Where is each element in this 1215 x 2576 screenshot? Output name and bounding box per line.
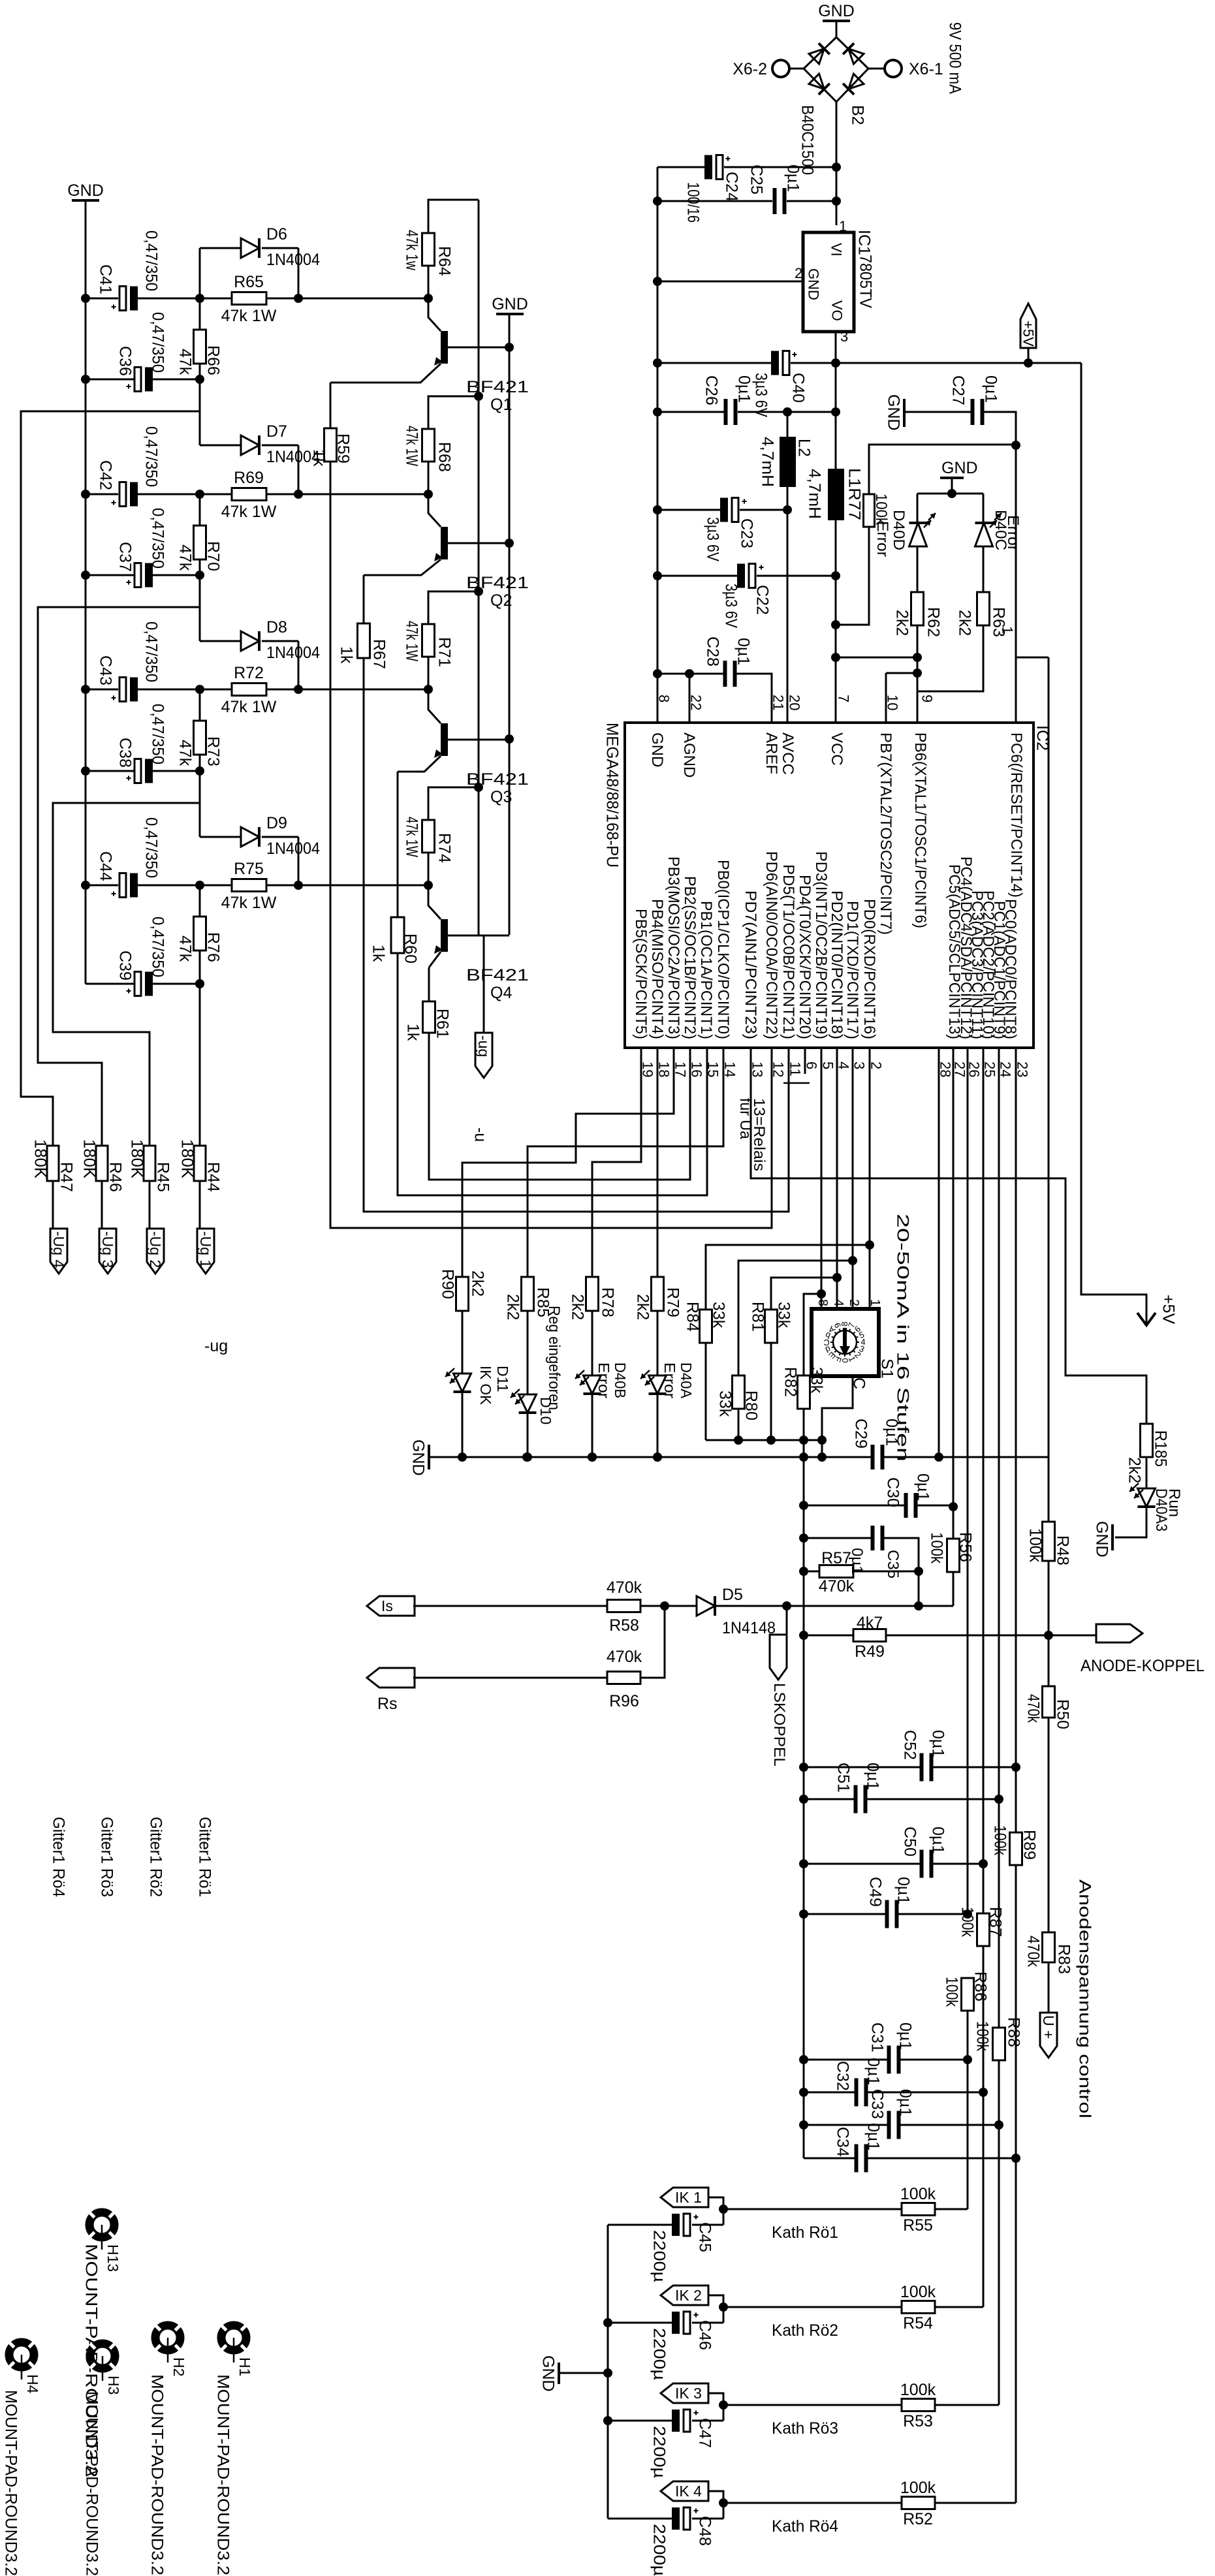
wire R64 top to rail bbox=[428, 200, 479, 233]
capacitor C41 0,47/350 bbox=[86, 298, 118, 300]
capacitor C40 3u3 6V bbox=[657, 362, 771, 364]
svg-text:2k2: 2k2 bbox=[504, 1294, 522, 1320]
svg-text:4,7mH: 4,7mH bbox=[759, 437, 777, 487]
svg-text:47k: 47k bbox=[176, 349, 195, 375]
wire reset jog to right rail bbox=[1016, 657, 1049, 659]
svg-text:VCC: VCC bbox=[828, 732, 845, 766]
resistor R76 47k bbox=[199, 885, 201, 917]
svg-text:H13: H13 bbox=[104, 2244, 121, 2272]
svg-text:X6-1: X6-1 bbox=[909, 60, 943, 78]
flag Rs bbox=[367, 1668, 415, 1688]
svg-text:100k: 100k bbox=[958, 1907, 977, 1937]
svg-text:C42: C42 bbox=[97, 460, 115, 490]
svg-text:C31: C31 bbox=[868, 2022, 887, 2052]
svg-text:BF421: BF421 bbox=[466, 378, 529, 396]
svg-text:D9: D9 bbox=[266, 814, 287, 832]
resistor R53 100k bbox=[723, 2404, 902, 2406]
svg-text:PC6(/RESET/PCINT14): PC6(/RESET/PCINT14) bbox=[1007, 732, 1025, 898]
capacitor C35 0u1 bbox=[804, 1537, 872, 1539]
mount pad H4 bbox=[8, 2341, 35, 2380]
svg-text:0µ1: 0µ1 bbox=[883, 1419, 901, 1446]
wire C27 to reset rail bbox=[984, 412, 1016, 445]
wire GND rail bbox=[462, 1456, 871, 1458]
svg-text:0,47/350: 0,47/350 bbox=[142, 621, 161, 682]
wire bridge output bbox=[836, 102, 838, 225]
svg-text:47k 1W: 47k 1W bbox=[403, 817, 421, 857]
resistor R74 47k 1W vertical bbox=[422, 820, 435, 853]
svg-text:-Ug 4: -Ug 4 bbox=[50, 1231, 67, 1268]
mount pad H2 bbox=[154, 2324, 181, 2363]
resistor R81 33k bbox=[771, 1278, 837, 1310]
flag LSKOPPEL bbox=[786, 1606, 788, 1635]
resistor R67 1k bbox=[358, 623, 370, 658]
svg-text:C22: C22 bbox=[753, 585, 772, 615]
svg-text:PC0(ADC0/PCINT8): PC0(ADC0/PCINT8) bbox=[1002, 899, 1019, 1039]
resistor R70 47k bbox=[199, 494, 201, 526]
capacitor C31 0u1 bbox=[804, 2059, 889, 2061]
resistor R58 470k bbox=[413, 1605, 607, 1607]
wire resistor top to rail bbox=[428, 396, 479, 429]
svg-text:Reg eingefroren: Reg eingefroren bbox=[545, 1306, 563, 1410]
svg-text:2k2: 2k2 bbox=[469, 1270, 487, 1296]
svg-text:C39: C39 bbox=[116, 950, 134, 981]
svg-text:Gitter1 Rö4: Gitter1 Rö4 bbox=[50, 1817, 68, 1897]
svg-text:20: 20 bbox=[787, 695, 803, 710]
svg-text:R82: R82 bbox=[781, 1367, 800, 1397]
ic IC1 7805TV bbox=[803, 232, 854, 332]
svg-text:+5V: +5V bbox=[1160, 1295, 1178, 1325]
svg-text:GND: GND bbox=[818, 2, 855, 20]
svg-text:100k: 100k bbox=[991, 1825, 1009, 1855]
svg-text:0µ1: 0µ1 bbox=[735, 375, 753, 403]
svg-text:Error: Error bbox=[661, 1362, 678, 1398]
svg-text:R54: R54 bbox=[903, 2314, 933, 2333]
wire pin4 to S1 bbox=[836, 1048, 838, 1309]
svg-text:PD2(INT0/PCINT18): PD2(INT0/PCINT18) bbox=[828, 890, 845, 1039]
node main row 2 bbox=[81, 490, 90, 499]
svg-text:1: 1 bbox=[868, 1299, 882, 1306]
svg-text:1k: 1k bbox=[338, 646, 356, 664]
resistor R52 100k bbox=[723, 2502, 902, 2504]
resistor R63 2k2 bbox=[977, 592, 990, 625]
svg-text:D8: D8 bbox=[266, 618, 287, 636]
svg-text:2200µ: 2200µ bbox=[650, 2426, 669, 2478]
svg-text:1k: 1k bbox=[370, 945, 388, 962]
svg-text:R81: R81 bbox=[749, 1302, 767, 1332]
svg-text:33k: 33k bbox=[710, 1302, 728, 1328]
wire S1 common to GND bbox=[822, 1376, 853, 1457]
connector flag IK 4 bbox=[661, 2481, 708, 2501]
svg-text:C29: C29 bbox=[852, 1419, 870, 1449]
svg-text:1k: 1k bbox=[404, 1024, 422, 1041]
capacitor C34 0u1 bbox=[804, 2158, 856, 2160]
svg-text:1k: 1k bbox=[310, 449, 328, 467]
wire pin2 to S1 bbox=[869, 1048, 871, 1309]
wire pin27 to C30 row bbox=[953, 1048, 955, 1507]
svg-text:C25: C25 bbox=[748, 165, 766, 195]
svg-text:PD4(T0/XCK/PCINT20): PD4(T0/XCK/PCINT20) bbox=[796, 875, 813, 1039]
svg-text:47k: 47k bbox=[176, 740, 195, 766]
led D40C Error bbox=[983, 494, 985, 523]
svg-text:C50: C50 bbox=[901, 1827, 919, 1857]
svg-text:VO: VO bbox=[829, 300, 845, 321]
svg-text:R76: R76 bbox=[204, 932, 223, 962]
mount pad H3 bbox=[89, 2342, 116, 2381]
transistor Q3 BF421 bbox=[441, 723, 448, 756]
svg-text:0,47/350: 0,47/350 bbox=[149, 508, 167, 569]
svg-text:C32: C32 bbox=[834, 2061, 852, 2091]
capacitor C22 3u3 6V bbox=[657, 575, 738, 577]
capacitor C37 0,47/350 bbox=[86, 574, 134, 576]
wire pin19 to R78 bbox=[592, 1048, 641, 1277]
resistor R73 47k bbox=[199, 689, 201, 721]
wire reset rail bbox=[1015, 445, 1017, 723]
switch S1 rotary bbox=[812, 1309, 879, 1376]
svg-text:MOUNT-PAD-ROUND3.2: MOUNT-PAD-ROUND3.2 bbox=[214, 2374, 232, 2575]
svg-text:-ug: -ug bbox=[204, 1337, 228, 1355]
led D11 bbox=[462, 1311, 464, 1374]
wire VCC rail lower bbox=[835, 520, 837, 723]
resistor R65 47k 1W bbox=[232, 292, 266, 305]
svg-text:D40A: D40A bbox=[678, 1362, 695, 1399]
wire row right bbox=[266, 494, 428, 495]
svg-text:0µ1: 0µ1 bbox=[896, 2022, 915, 2050]
svg-text:Error: Error bbox=[874, 521, 891, 557]
svg-text:C27: C27 bbox=[949, 375, 968, 405]
wire pin13 to R185 bbox=[751, 1048, 1146, 1424]
svg-text:R83: R83 bbox=[1055, 1944, 1073, 1974]
wire right rail down bbox=[1048, 657, 1050, 1457]
diode D6 1N4004 bbox=[199, 248, 201, 298]
wire R47 to flag bbox=[52, 1181, 54, 1229]
svg-text:0,47/350: 0,47/350 bbox=[142, 426, 161, 487]
mount pad H1 bbox=[220, 2324, 247, 2363]
svg-text:Anodenspannung control: Anodenspannung control bbox=[1076, 1879, 1094, 2118]
svg-text:8: 8 bbox=[815, 1299, 830, 1306]
led D40A3 Run bbox=[1146, 1457, 1148, 1488]
svg-text:D5: D5 bbox=[722, 1586, 743, 1604]
svg-text:U +: U + bbox=[1040, 2015, 1057, 2039]
svg-text:0µ1: 0µ1 bbox=[864, 1763, 882, 1790]
svg-text:3: 3 bbox=[840, 328, 848, 345]
connector X6-1 bbox=[868, 68, 885, 70]
svg-text:1: 1 bbox=[839, 218, 847, 234]
svg-text:D6: D6 bbox=[266, 225, 287, 243]
svg-text:C40: C40 bbox=[789, 373, 808, 403]
svg-text:2200µ: 2200µ bbox=[650, 2524, 669, 2576]
svg-text:8: 8 bbox=[656, 695, 672, 702]
resistor R78 2k2 bbox=[586, 1277, 599, 1311]
wire D5 output row bbox=[716, 1605, 953, 1607]
inductor L2 4,7mH bbox=[787, 412, 789, 437]
wire pin6 stub bbox=[804, 1048, 806, 1074]
svg-text:AVCC: AVCC bbox=[779, 732, 797, 775]
ground GND (base rail) bbox=[496, 313, 524, 315]
wire row to resistor bbox=[137, 494, 232, 495]
svg-text:R60: R60 bbox=[402, 934, 420, 964]
svg-text:100/16: 100/16 bbox=[684, 182, 702, 223]
capacitor C38 0,47/350 bbox=[86, 770, 134, 772]
arrow +5V supply bbox=[1137, 1313, 1156, 1325]
svg-text:0,47/350: 0,47/350 bbox=[149, 704, 167, 764]
capacitor C44 0,47/350 bbox=[86, 885, 118, 887]
svg-text:BF421: BF421 bbox=[466, 966, 529, 984]
node main row 1 bbox=[81, 294, 90, 303]
wire pin10 jog bbox=[886, 672, 917, 674]
svg-text:10: 10 bbox=[885, 695, 901, 710]
svg-text:R84: R84 bbox=[684, 1302, 702, 1332]
wire R61 to pin16 bbox=[429, 1033, 690, 1180]
svg-text:R69: R69 bbox=[234, 469, 264, 487]
svg-text:2200µ: 2200µ bbox=[650, 2230, 669, 2282]
svg-text:100k: 100k bbox=[900, 2283, 936, 2301]
svg-text:C26: C26 bbox=[702, 375, 721, 405]
capacitor C32 0u1 bbox=[804, 2092, 856, 2094]
wire R67 to pin11 bbox=[364, 658, 789, 1212]
capacitor C43 0,47/350 bbox=[86, 689, 118, 691]
resistor R60 1k bbox=[391, 917, 404, 953]
svg-text:-Ug 1: -Ug 1 bbox=[197, 1231, 214, 1268]
wire R59 to pin12 bbox=[330, 462, 772, 1228]
svg-text:PB6(XTAL1/TOSC1/PCINT6): PB6(XTAL1/TOSC1/PCINT6) bbox=[911, 732, 929, 928]
svg-text:R68: R68 bbox=[435, 442, 454, 472]
resistor R89 100k bbox=[1015, 1767, 1017, 1832]
svg-text:GND: GND bbox=[885, 394, 903, 431]
svg-text:PD0(RXD/PCINT16): PD0(RXD/PCINT16) bbox=[860, 899, 878, 1039]
svg-text:47k 1W: 47k 1W bbox=[221, 503, 277, 521]
wire row to resistor bbox=[137, 298, 232, 300]
svg-text:R48: R48 bbox=[1054, 1535, 1072, 1565]
svg-text:S1: S1 bbox=[878, 1359, 896, 1379]
svg-text:MOUNT-PAD-ROUND3.2: MOUNT-PAD-ROUND3.2 bbox=[2, 2390, 20, 2576]
svg-text:4,7mH: 4,7mH bbox=[806, 469, 824, 519]
svg-text:C49: C49 bbox=[866, 1877, 885, 1907]
svg-text:33k: 33k bbox=[716, 1390, 734, 1417]
svg-text:+5V: +5V bbox=[1020, 321, 1037, 347]
resistor R87 100k bbox=[983, 1864, 985, 1913]
svg-text:C30: C30 bbox=[884, 1477, 902, 1507]
svg-text:0µ1: 0µ1 bbox=[914, 1473, 932, 1501]
transistor Q4 BF421 bbox=[441, 919, 448, 952]
svg-text:Kath Rö3: Kath Rö3 bbox=[772, 2419, 838, 2438]
svg-text:D40A3: D40A3 bbox=[1152, 1488, 1170, 1531]
svg-text:R86: R86 bbox=[971, 1971, 990, 2002]
svg-text:15: 15 bbox=[705, 1061, 721, 1077]
svg-text:C36: C36 bbox=[116, 346, 134, 376]
svg-text:C37: C37 bbox=[116, 542, 134, 572]
svg-text:-ug: -ug bbox=[475, 1035, 492, 1057]
svg-text:R53: R53 bbox=[903, 2412, 933, 2430]
wire pin23 net to R52 bbox=[1015, 2158, 1017, 2503]
wire row right bbox=[266, 689, 428, 691]
svg-text:X6-2: X6-2 bbox=[733, 60, 767, 78]
svg-text:Error: Error bbox=[1004, 515, 1022, 551]
svg-text:22: 22 bbox=[688, 695, 704, 710]
wire R62 bottom bbox=[917, 625, 919, 723]
capacitor C27 0u1 bbox=[906, 411, 971, 413]
resistor R48 100k bbox=[1048, 1457, 1050, 1522]
svg-text:C24: C24 bbox=[723, 172, 741, 202]
svg-text:D40B: D40B bbox=[612, 1362, 629, 1398]
svg-text:LSKOPPEL: LSKOPPEL bbox=[770, 1683, 788, 1767]
wire pin14 to R85 bbox=[528, 1048, 723, 1277]
resistor R84 33k bbox=[706, 1245, 870, 1310]
svg-text:R67: R67 bbox=[370, 639, 388, 669]
svg-text:PB4(MISO/PCINT4): PB4(MISO/PCINT4) bbox=[648, 899, 666, 1039]
svg-text:-u: -u bbox=[471, 1127, 490, 1142]
svg-text:Kath Rö2: Kath Rö2 bbox=[772, 2321, 838, 2340]
resistor R45 180K bbox=[144, 1146, 155, 1181]
svg-text:R47: R47 bbox=[57, 1162, 76, 1192]
svg-text:PB7(XTAL2/TOSC2/PCINT7): PB7(XTAL2/TOSC2/PCINT7) bbox=[877, 732, 894, 935]
resistor R61 1k bbox=[423, 1001, 435, 1033]
svg-text:R79: R79 bbox=[664, 1287, 682, 1317]
svg-text:Gitter1 Rö2: Gitter1 Rö2 bbox=[147, 1817, 165, 1897]
svg-text:R78: R78 bbox=[599, 1287, 617, 1317]
capacitor C42 0,47/350 bbox=[86, 494, 118, 495]
svg-text:PD1(TXD/PCINT17): PD1(TXD/PCINT17) bbox=[844, 901, 861, 1039]
resistor R79 2k2 bbox=[652, 1277, 664, 1311]
svg-text:0µ1: 0µ1 bbox=[929, 1730, 947, 1757]
svg-text:2k2: 2k2 bbox=[1126, 1457, 1144, 1483]
svg-text:3µ3 6V: 3µ3 6V bbox=[704, 517, 722, 561]
pin 6 underline bbox=[783, 1082, 810, 1084]
resistor R46 180K bbox=[96, 1146, 108, 1181]
svg-text:GND: GND bbox=[67, 181, 104, 200]
svg-text:R56: R56 bbox=[956, 1532, 975, 1562]
svg-text:1N4004: 1N4004 bbox=[266, 644, 320, 662]
wire R63 bottom jog bbox=[917, 625, 983, 691]
ground GND (top left) bbox=[72, 199, 99, 202]
svg-text:PB1(OC1A/PCINT1): PB1(OC1A/PCINT1) bbox=[697, 901, 715, 1039]
resistor R49 4k7 bbox=[804, 1635, 853, 1637]
capacitor C26 0u1 bbox=[657, 411, 724, 413]
connector flag -Ug 1 bbox=[197, 1229, 214, 1274]
svg-text:C34: C34 bbox=[834, 2127, 852, 2157]
svg-text:R46: R46 bbox=[106, 1162, 125, 1192]
svg-text:R80: R80 bbox=[742, 1390, 761, 1421]
svg-text:47k 1w: 47k 1w bbox=[403, 230, 421, 271]
svg-text:GND: GND bbox=[539, 2355, 558, 2392]
resistor R185 2k2 bbox=[1141, 1424, 1153, 1457]
svg-text:2: 2 bbox=[795, 265, 802, 281]
resistor R54 100k bbox=[723, 2306, 902, 2308]
svg-text:H4: H4 bbox=[24, 2374, 41, 2394]
svg-text:3µ3 6V: 3µ3 6V bbox=[722, 584, 740, 628]
svg-text:180K: 180K bbox=[128, 1139, 146, 1178]
svg-text:100k: 100k bbox=[900, 2185, 936, 2203]
svg-text:C33: C33 bbox=[868, 2089, 887, 2119]
svg-text:IK 3: IK 3 bbox=[675, 2385, 702, 2402]
svg-text:R89: R89 bbox=[1020, 1830, 1039, 1860]
wire pin22 stub bbox=[689, 674, 691, 723]
resistor R68 47k 1W vertical bbox=[422, 429, 435, 462]
svg-text:VI: VI bbox=[828, 243, 845, 257]
ground GND (bridge top) bbox=[823, 20, 850, 22]
svg-text:1N4148: 1N4148 bbox=[722, 1619, 776, 1637]
svg-text:C48: C48 bbox=[696, 2516, 714, 2546]
diode D8 1N4004 bbox=[199, 575, 201, 641]
ground GND (kath) bbox=[558, 2363, 560, 2384]
wire base rail bbox=[509, 315, 511, 935]
wire AVCC rail to pin20 bbox=[787, 510, 789, 723]
svg-text:C47: C47 bbox=[696, 2418, 714, 2448]
connector flag -Ug 3 bbox=[99, 1229, 116, 1274]
svg-text:L1R77: L1R77 bbox=[845, 468, 864, 520]
connector flag IK 2 bbox=[661, 2285, 708, 2305]
wire pin25 net to R54 bbox=[983, 2092, 985, 2307]
svg-text:GND: GND bbox=[409, 1439, 428, 1476]
svg-text:47k: 47k bbox=[176, 935, 195, 962]
svg-text:R71: R71 bbox=[435, 637, 454, 667]
svg-text:100k: 100k bbox=[1026, 1528, 1045, 1562]
node main row 4 bbox=[81, 881, 90, 890]
svg-text:GND: GND bbox=[806, 268, 822, 300]
capacitor C39 0,47/350 bbox=[86, 983, 134, 985]
svg-text:0,47/350: 0,47/350 bbox=[142, 817, 161, 878]
flag ANODE-KOPPEL bbox=[1096, 1624, 1143, 1642]
svg-text:MOUNT-PAD-ROUND3.2: MOUNT-PAD-ROUND3.2 bbox=[83, 2391, 101, 2576]
wire row to resistor bbox=[137, 885, 232, 887]
wire pin18 to R79 bbox=[657, 1048, 659, 1277]
svg-text:100k: 100k bbox=[900, 2479, 936, 2497]
svg-text:7: 7 bbox=[836, 695, 852, 702]
wire pin17 to R90 bbox=[462, 1048, 674, 1277]
svg-text:R90: R90 bbox=[439, 1269, 457, 1299]
svg-text:PB3(MOSI/OC2A/PCINT3): PB3(MOSI/OC2A/PCINT3) bbox=[665, 856, 682, 1039]
svg-text:47k 1W: 47k 1W bbox=[221, 894, 277, 912]
svg-text:47k 1W: 47k 1W bbox=[403, 621, 421, 661]
svg-text:PB5(SCK/PCINT5): PB5(SCK/PCINT5) bbox=[632, 909, 650, 1039]
svg-text:0,47/350: 0,47/350 bbox=[149, 312, 167, 373]
wire row right bbox=[266, 298, 428, 300]
svg-text:C23: C23 bbox=[738, 518, 756, 548]
led D40A bbox=[657, 1311, 659, 1375]
resistor R80 33k bbox=[738, 1261, 853, 1375]
svg-text:Rs: Rs bbox=[377, 1695, 398, 1713]
diode D9 1N4004 bbox=[199, 771, 201, 837]
capacitor C45 2200u bbox=[692, 2224, 723, 2226]
capacitor C24 100/16 bbox=[657, 166, 704, 168]
svg-text:R49: R49 bbox=[855, 1642, 885, 1661]
svg-text:Gitter1 Rö1: Gitter1 Rö1 bbox=[196, 1817, 214, 1897]
svg-text:C38: C38 bbox=[116, 738, 134, 768]
svg-text:R74: R74 bbox=[435, 833, 454, 863]
resistor R88 100k bbox=[993, 2028, 1005, 2060]
svg-text:GND: GND bbox=[1093, 1521, 1111, 1558]
svg-text:2k2: 2k2 bbox=[569, 1294, 587, 1320]
svg-text:R96: R96 bbox=[609, 1692, 639, 1710]
wire R96 to D5 node bbox=[640, 1606, 665, 1678]
led D40D Error bbox=[917, 494, 919, 522]
inductor L1 4,7mH bbox=[828, 469, 844, 520]
svg-text:PB2(SS/OC1B/PCINT2): PB2(SS/OC1B/PCINT2) bbox=[681, 876, 699, 1039]
svg-text:C28: C28 bbox=[704, 636, 722, 667]
wire left vertical GND-input rail bbox=[657, 167, 659, 723]
resistor R50 470k bbox=[1048, 1635, 1050, 1686]
svg-text:2k2: 2k2 bbox=[634, 1294, 652, 1320]
capacitor C46 2200u bbox=[692, 2322, 723, 2324]
svg-text:0µ1: 0µ1 bbox=[864, 2058, 883, 2085]
svg-text:C45: C45 bbox=[696, 2222, 714, 2252]
wire pin28 to C29 row bbox=[938, 1048, 940, 1457]
wire pin24 down bbox=[998, 1048, 1000, 2028]
ground GND (LED row) bbox=[428, 1445, 430, 1469]
capacitor C25 0u1 bbox=[657, 200, 772, 202]
wire VCC tap bbox=[837, 657, 917, 659]
svg-text:0µ1: 0µ1 bbox=[734, 638, 753, 665]
svg-text:R44: R44 bbox=[204, 1162, 223, 1192]
